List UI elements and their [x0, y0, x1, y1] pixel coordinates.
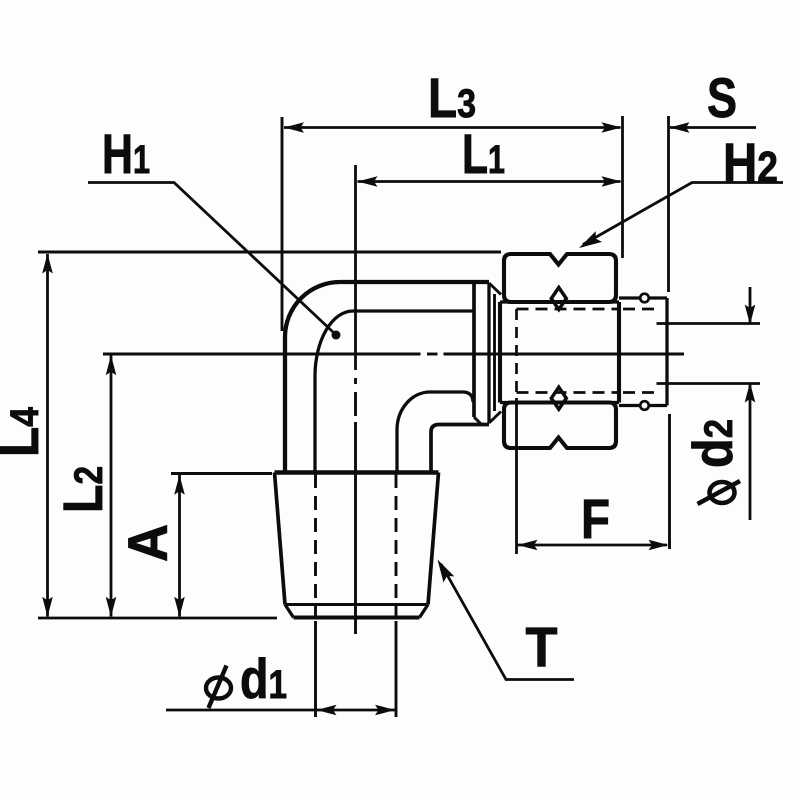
L4 bottom extension line: [38, 617, 277, 620]
union nut middle left edge: [498, 302, 502, 403]
svg-text:F: F: [581, 487, 610, 550]
tube hidden lower dashed: [623, 391, 659, 394]
svg-text:T: T: [526, 615, 558, 678]
vertical centerline: [354, 165, 357, 634]
L3 arrow right: [602, 122, 622, 133]
L3 arrow left: [284, 122, 304, 133]
L4 arrow top: [42, 254, 53, 274]
tube stub bottom edge: [619, 404, 667, 407]
F arrow left: [518, 540, 538, 551]
thread right taper edge: [428, 473, 439, 605]
d1 extension line left: [314, 621, 317, 717]
thread right chamfer: [420, 605, 429, 618]
nut hidden hole end dashed: [515, 309, 518, 393]
thread relief line: [285, 603, 428, 606]
union nut lower face line: [500, 401, 619, 404]
svg-text:A: A: [116, 524, 179, 562]
L4 top extension line: [38, 251, 501, 254]
svg-text:d2: d2: [681, 419, 744, 468]
H2 leader line: [583, 183, 783, 245]
svg-text:L3: L3: [428, 66, 476, 129]
L1 arrow right: [602, 176, 622, 187]
T leader line: [441, 564, 574, 680]
T leader arrowhead: [438, 560, 455, 583]
thread left chamfer: [285, 605, 294, 618]
d2 arrow down: [745, 305, 756, 325]
thread bottom edge: [294, 615, 420, 619]
tube upper bead circle: [640, 294, 649, 303]
thread minor dia dashed left: [314, 474, 317, 617]
union nut lower diamond: [551, 387, 566, 409]
L2 arrow top: [106, 355, 117, 375]
A arrow bottom: [174, 597, 185, 617]
svg-text:L1: L1: [462, 122, 505, 185]
L2 arrow bottom: [106, 597, 117, 617]
elbow body throat contour: [397, 392, 473, 471]
union nut middle right edge: [617, 302, 621, 403]
elbow body outer contour: [285, 282, 489, 471]
thread left taper edge: [275, 473, 286, 605]
tube lower bead circle: [640, 401, 649, 410]
arrowheads: [42, 122, 755, 715]
svg-text:H2: H2: [723, 131, 778, 194]
phi symbol for d1: [206, 666, 231, 709]
elbow body neck contour: [315, 311, 473, 471]
H2 leader arrowhead: [579, 231, 602, 248]
d2 arrow up: [745, 383, 756, 403]
L4 arrow bottom: [42, 597, 53, 617]
S extension line right: [667, 116, 670, 292]
flange inner vertical: [493, 294, 496, 411]
H1 leader dot: [332, 331, 341, 340]
d2 extension line upper: [657, 322, 761, 325]
flange bottom chamfer: [489, 412, 501, 424]
svg-text:d1: d1: [240, 647, 287, 710]
union nut upper band: [504, 254, 616, 302]
d1 dimension line: [166, 709, 395, 712]
H1 leader line: [88, 183, 333, 333]
tube stub end edge: [665, 298, 668, 406]
elbow body step contour: [431, 425, 489, 472]
S dimension line: [670, 126, 756, 129]
union nut lower band: [504, 403, 616, 449]
d2 dimension line upper tail: [749, 287, 752, 324]
flange right vertical: [487, 283, 490, 423]
d1 arrow left: [317, 705, 337, 716]
svg-text:L4: L4: [0, 406, 50, 457]
flange corner chamfer: [474, 417, 482, 425]
horizontal centerline: [103, 353, 684, 356]
flange top chamfer: [489, 283, 501, 295]
A top extension line: [171, 472, 272, 475]
flange left vertical: [472, 282, 476, 417]
F dimension line: [518, 544, 668, 547]
svg-text:L2: L2: [51, 466, 114, 513]
L3 dimension line: [284, 126, 621, 129]
L2 dimension line: [110, 356, 113, 617]
L3 extension line left: [281, 117, 284, 331]
L1 dimension line: [358, 180, 621, 183]
union nut upper diamond: [551, 288, 566, 310]
F extension line left: [515, 398, 518, 554]
F extension line right: [668, 414, 671, 549]
A dimension line: [178, 475, 181, 617]
d1 extension line right: [395, 621, 398, 717]
tube hidden upper dashed: [623, 308, 659, 311]
union nut upper face line: [500, 300, 619, 303]
thread minor dia dashed right: [395, 474, 398, 617]
d2 dimension line lower tail: [749, 384, 752, 521]
tube stub top edge: [619, 296, 667, 299]
S arrow left: [670, 122, 690, 133]
male taper thread top edge: [275, 470, 439, 475]
L1 arrow left: [358, 176, 378, 187]
svg-text:H1: H1: [102, 122, 150, 185]
svg-text:S: S: [707, 66, 737, 129]
L4 dimension line: [46, 254, 49, 617]
nut hidden thread upper dashed: [517, 308, 619, 311]
nut hidden thread lower dashed: [517, 391, 619, 394]
d2 extension line lower: [657, 382, 761, 385]
F arrow right: [649, 540, 669, 551]
A arrow top: [174, 475, 185, 495]
L3 L1 extension line right: [621, 116, 624, 258]
label phi d2 rotated: [681, 419, 744, 504]
d1 arrow right: [375, 705, 395, 716]
